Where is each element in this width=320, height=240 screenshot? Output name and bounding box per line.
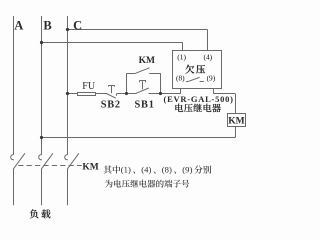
svg-text:(9): (9) — [207, 73, 216, 82]
svg-text:(8): (8) — [162, 164, 172, 174]
svg-text:(4): (4) — [141, 164, 151, 174]
svg-text:(EVR-GAL-500): (EVR-GAL-500) — [163, 94, 233, 104]
svg-text:SB1: SB1 — [135, 99, 155, 110]
svg-text:FU: FU — [82, 81, 96, 92]
svg-text:KM: KM — [82, 163, 98, 173]
svg-text:C: C — [73, 19, 82, 33]
svg-text:KM: KM — [228, 117, 244, 127]
svg-text:(1): (1) — [121, 164, 131, 174]
svg-text:(9): (9) — [182, 164, 192, 174]
svg-text:(8): (8) — [176, 73, 185, 82]
svg-text:(1): (1) — [177, 53, 186, 62]
svg-text:B: B — [43, 19, 51, 33]
svg-text:A: A — [14, 19, 23, 33]
svg-text:(4): (4) — [203, 53, 212, 62]
svg-text:SB2: SB2 — [101, 99, 121, 110]
svg-text:KM: KM — [139, 56, 155, 66]
